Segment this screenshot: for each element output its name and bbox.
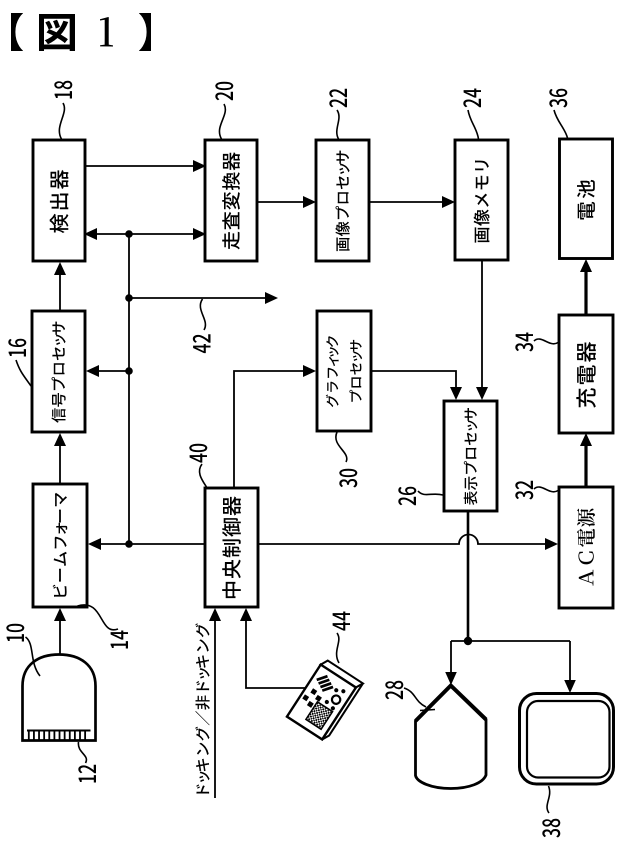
block 16 信号プロセッサ (signal processor): [32, 311, 85, 432]
block 30 グラフィックプロセッサ (graphics processor): [317, 311, 371, 431]
wire 16->18 (up): [54, 262, 66, 311]
ref 42 label+leader: [193, 299, 211, 353]
block 34 充電器 (charger): [559, 315, 613, 433]
ref 20 label+leader: [215, 82, 233, 139]
ref 14 label+leader: [78, 605, 129, 649]
wire 40->32 with hop over display line: [258, 535, 549, 545]
monitor 38: [520, 694, 614, 785]
ref 22 label+leader: [329, 89, 347, 139]
wire 24->26 (down): [476, 260, 488, 400]
block 14 ビームフォーマ (beamformer): [33, 484, 87, 607]
probe 10 (scanhead): [23, 655, 96, 741]
wire split horizontal: [451, 640, 570, 642]
ref 10 label+leader: [6, 624, 40, 676]
junction bus/18-20: [125, 230, 133, 238]
block 20 走査変換器 (scan converter): [205, 140, 257, 261]
wire 18->20 (upper): [85, 160, 206, 172]
wire bus->14 and bus->40: [88, 538, 205, 550]
junction display split: [464, 637, 472, 645]
ref 34 label+leader: [515, 333, 558, 352]
wire 40->30 (up and right): [234, 371, 307, 488]
wire 30->26 (right and down): [371, 371, 456, 391]
wire ->38 (down): [564, 641, 576, 693]
junction bus/42: [125, 294, 133, 302]
wire bus->16: [86, 365, 129, 377]
ref 44 label+leader: [333, 612, 350, 664]
block 32 AC電源 (AC power supply): [559, 487, 613, 608]
wire 18<->20 with bus tap (double arrow): [84, 228, 206, 240]
ref 18 label+leader: [54, 81, 72, 139]
wire vertical bus x=129: [128, 234, 130, 544]
ref 38 label+leader: [542, 786, 560, 838]
block 18 検出器 (detector): [33, 140, 85, 261]
wire remote 44 -> 40: [246, 617, 306, 688]
ref 40 label+leader: [189, 444, 207, 487]
block 40 中央制御器 (central controller): [205, 488, 258, 607]
wire probe->14 (up): [54, 608, 66, 655]
block 26 表示プロセッサ (display processor): [444, 401, 497, 511]
wire 26 down to junction: [467, 511, 470, 641]
wire 32->34 (up): [580, 433, 592, 487]
ref 30 label+leader: [336, 432, 357, 488]
net label ドッキング／非ドッキング: [195, 623, 210, 793]
wire 42 bus->right arrow: [129, 292, 278, 304]
junction bus/16: [125, 367, 133, 375]
wire 14->16 (up): [54, 433, 66, 484]
ref 32 label+leader: [515, 481, 558, 500]
block 36 電池 (battery): [560, 139, 613, 259]
wire 34->36 (up): [580, 259, 592, 315]
wire 20->22: [257, 196, 316, 208]
display goggles 28: [416, 686, 487, 789]
figure title 【図 1】: [11, 13, 151, 51]
wire docking signal -> 40 (up): [209, 608, 221, 798]
ref 24 label+leader: [463, 89, 481, 140]
junction bus/544: [125, 540, 133, 548]
ref 12 label+leader: [78, 742, 96, 783]
block 24 画像メモリ (image memory): [455, 140, 508, 260]
ref 36 label+leader: [549, 89, 567, 138]
wire 22->24: [369, 196, 455, 208]
ref 16 label+leader: [8, 339, 31, 386]
ref 26 label+leader: [398, 487, 443, 506]
ref 28 label+leader: [385, 681, 435, 711]
wire ->28 (down): [445, 641, 457, 685]
block 22 画像プロセッサ (image processor): [316, 140, 369, 261]
remote control 44: [287, 659, 363, 742]
